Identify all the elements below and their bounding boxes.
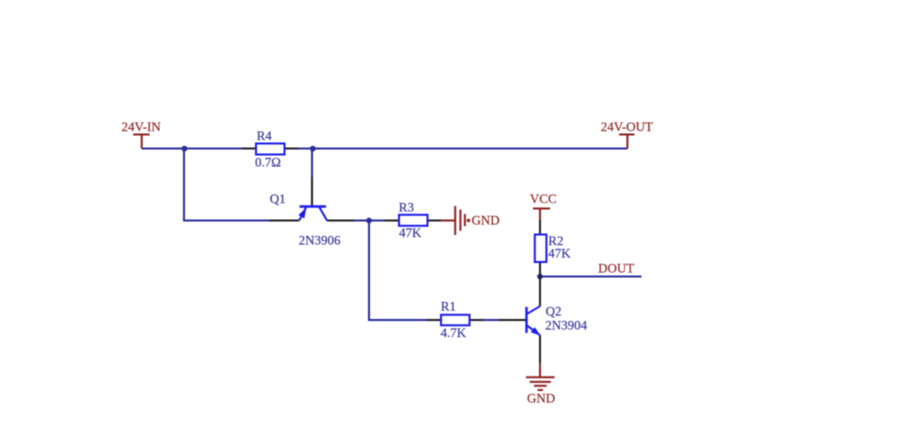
svg-text:DOUT: DOUT [598, 261, 634, 276]
svg-text:R1: R1 [441, 299, 456, 314]
svg-text:2N3906: 2N3906 [299, 233, 341, 248]
svg-text:24V-IN: 24V-IN [122, 119, 162, 134]
svg-text:R3: R3 [399, 200, 414, 215]
svg-text:GND: GND [527, 390, 555, 405]
svg-text:R4: R4 [257, 128, 273, 143]
svg-text:VCC: VCC [530, 191, 557, 206]
svg-text:24V-OUT: 24V-OUT [601, 119, 653, 134]
svg-text:4.7K: 4.7K [441, 325, 467, 340]
svg-text:2N3904: 2N3904 [545, 317, 587, 332]
svg-text:47K: 47K [399, 225, 422, 240]
svg-text:GND: GND [472, 213, 500, 228]
svg-text:Q1: Q1 [270, 191, 286, 206]
svg-text:47K: 47K [548, 246, 571, 261]
svg-text:0.7Ω: 0.7Ω [255, 155, 281, 170]
